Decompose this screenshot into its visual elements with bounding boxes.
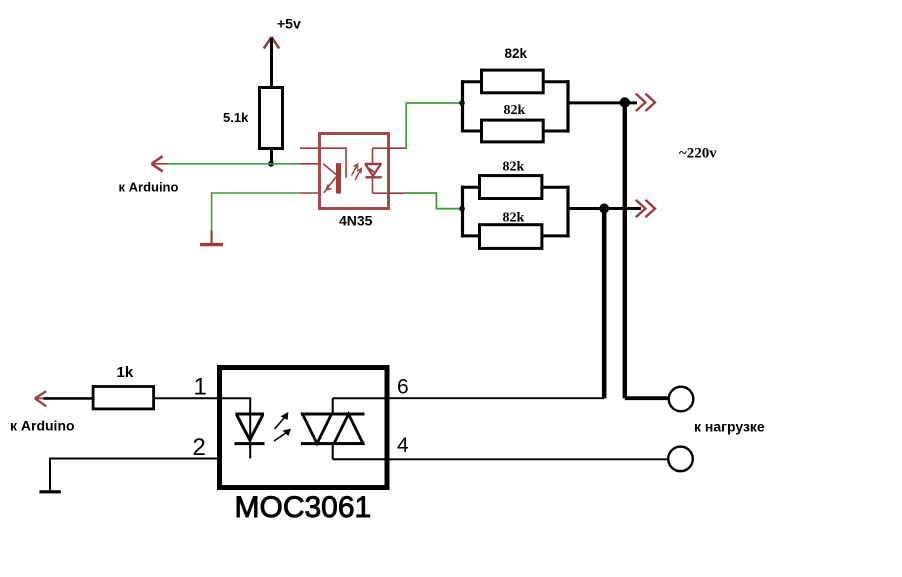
label pin 6: [397, 375, 409, 398]
network B right bus: [541, 186, 570, 238]
label к нагрузке: [694, 418, 765, 434]
optocoupler U2 MOC3061 body: [220, 368, 388, 488]
node: green feed into network B: [459, 206, 465, 212]
wire: arrow to R6: [44, 397, 94, 400]
label 5.1k: [223, 110, 249, 125]
wire: U1 pin stub top-right (red): [373, 147, 406, 149]
terminal arrow к Arduino (bottom): [35, 391, 46, 406]
resistor R6 1k: [93, 387, 154, 409]
svg-text:82k: 82k: [504, 103, 526, 118]
wire: U1 bottom to network B (green): [405, 193, 460, 209]
svg-text:+5v: +5v: [277, 16, 301, 32]
wire: U2 pin 6 to node C: [387, 397, 604, 399]
network A left bus: [461, 80, 482, 131]
optocoupler U1 4N35 body: [320, 134, 389, 209]
wire: U2 pin 4 to load terminal: [387, 458, 668, 460]
wire: R1 to node A: [270, 149, 273, 165]
wire: U1 top to network A (green): [406, 103, 460, 148]
label pin 2: [193, 434, 206, 461]
wire: U2 pin 2 to ground: [50, 459, 220, 491]
wire: U1 base stub (red, unconnected): [300, 147, 319, 149]
terminal circle (top, к нагрузке): [669, 387, 694, 412]
node C junction: [599, 204, 609, 214]
label ~220v: [679, 145, 717, 161]
svg-text:1: 1: [194, 374, 207, 401]
label 1k: [117, 364, 134, 381]
resistor R1 5.1k: [260, 88, 283, 149]
svg-text:4: 4: [397, 434, 409, 457]
svg-text:~220v: ~220v: [679, 145, 717, 161]
network B left bus: [461, 186, 480, 238]
label 4N35: [339, 212, 373, 228]
terminal chevrons ~220v (bottom): [636, 200, 655, 217]
wire: U1 pin stub bottom-left (red): [300, 192, 319, 194]
U2 triac: [301, 398, 387, 459]
label 82k (R3): [504, 103, 526, 118]
label MOC3061: [235, 491, 372, 524]
node: green feed into network A: [459, 100, 465, 106]
terminal chevrons ~220v (top): [636, 94, 655, 111]
svg-text:6: 6: [397, 375, 409, 398]
wire: +5v to R1: [270, 38, 273, 88]
node A junction: [268, 161, 274, 167]
svg-text:к Arduino: к Arduino: [10, 418, 75, 434]
label pin 1: [194, 374, 207, 401]
wire: R6 to U2 pin 1: [154, 397, 220, 399]
label 82k (R2): [505, 46, 528, 61]
node B junction: [620, 97, 630, 107]
wire: green drop to ground: [211, 192, 213, 230]
svg-text:MOC3061: MOC3061: [235, 491, 372, 524]
network A right bus: [543, 80, 570, 132]
terminal circle (bottom, к нагрузке): [668, 447, 693, 472]
label pin 4: [397, 434, 409, 457]
terminal arrow к Arduino (top): [152, 156, 169, 171]
wire: node B elbow to load terminal: [625, 396, 668, 400]
wire: network A output: [568, 101, 637, 104]
wire: bottom-left pin row (green): [212, 192, 300, 194]
power terminal arrow +5v: [264, 37, 279, 49]
resistor R3 82k: [482, 120, 544, 142]
U2 light arrows: [274, 413, 290, 441]
resistor R5 82k: [480, 225, 542, 249]
label к Arduino (bottom): [10, 418, 75, 434]
label 82k (R4): [503, 159, 525, 174]
svg-text:1k: 1k: [117, 364, 134, 381]
U1 phototransistor: [320, 148, 347, 193]
svg-text:82k: 82k: [503, 159, 525, 174]
wire: U1 pin stub bottom-right (red): [373, 192, 406, 194]
U1 output diode: [365, 148, 382, 193]
svg-text:к Arduino: к Arduino: [119, 180, 179, 195]
ground (bottom): [39, 490, 60, 493]
label к Arduino (top): [119, 180, 179, 195]
svg-text:2: 2: [193, 434, 206, 461]
resistor R2 82k: [482, 70, 544, 93]
wire: node C vertical drop: [602, 209, 607, 399]
svg-text:82k: 82k: [505, 46, 528, 61]
svg-text:к нагрузке: к нагрузке: [694, 418, 765, 434]
wire: network B output: [568, 207, 641, 210]
wire: node A to left arrow (green): [166, 163, 300, 165]
wire: node B vertical drop: [623, 102, 627, 398]
U2 input LED: [220, 398, 265, 458]
svg-text:5.1k: 5.1k: [223, 110, 249, 125]
U1 light arrows: [352, 164, 362, 180]
svg-text:4N35: 4N35: [339, 212, 373, 228]
resistor R4 82k: [480, 176, 542, 199]
ground (top, red): [200, 231, 223, 245]
svg-text:82k: 82k: [503, 211, 525, 226]
label +5v: [277, 16, 301, 32]
label 82k (R5): [503, 211, 525, 226]
wire: U1 pin stub top-left (red): [300, 163, 319, 165]
